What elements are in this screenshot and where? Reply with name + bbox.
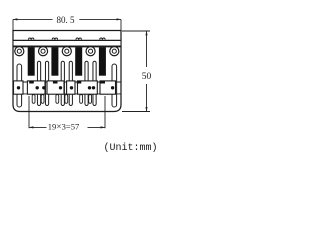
- saddle blocks: [14, 81, 116, 94]
- plate fold line: [13, 39, 121, 41]
- bridge plate outline: [13, 31, 121, 112]
- vertical slots under screw 1 and 5: [17, 64, 117, 107]
- intonation screws (black bars): [28, 47, 106, 75]
- svg-text:80. 5: 80. 5: [57, 15, 76, 25]
- saddle height screw dots: [17, 86, 115, 89]
- intonation screw head bumps above fold: [29, 38, 106, 41]
- plate front edge heavy line: [13, 45, 121, 47]
- dimension 50 right: [122, 31, 150, 112]
- svg-text:50: 50: [142, 72, 152, 82]
- spring stubs below band beside bars: [32, 95, 91, 104]
- intonation screw tips in saddles: [29, 81, 105, 84]
- dimension 80.5 top: [13, 19, 121, 30]
- spring prongs beside screws 2,3,4: [37, 61, 96, 105]
- svg-text:19×3=57: 19×3=57: [48, 122, 79, 133]
- mounting screw holes (double circles): [15, 47, 119, 56]
- saddle band rails: [14, 82, 121, 94]
- dimension 19x3=57 bottom: [29, 96, 105, 128]
- svg-text:(Unit:mm): (Unit:mm): [103, 142, 157, 154]
